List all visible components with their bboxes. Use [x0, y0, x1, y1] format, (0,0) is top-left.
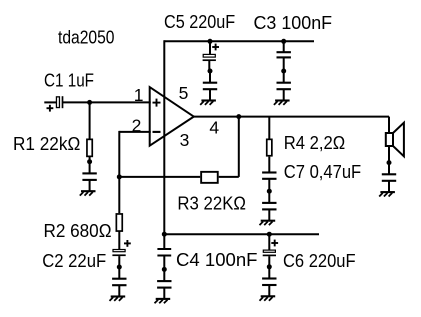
node feedback junction dot — [117, 174, 122, 179]
svg-text:1: 1 — [134, 85, 144, 105]
ground under C7 — [260, 189, 277, 225]
resistor R1 — [87, 139, 92, 156]
ground under C4 — [155, 267, 172, 303]
wire input node down to R1 — [89, 102, 91, 138]
svg-text:4: 4 — [209, 118, 219, 138]
wire op-amp pin 2 — [119, 131, 150, 133]
node C6 rail junction dot — [267, 232, 272, 237]
svg-text:C6 220uF: C6 220uF — [283, 251, 356, 271]
wire supply pin 5 to pin 3 vertical — [163, 40, 165, 234]
op-amp U1 — [150, 87, 194, 146]
svg-text:R4 2,2Ω: R4 2,2Ω — [284, 133, 345, 153]
wire op-amp output — [194, 116, 389, 118]
ground under C3 — [274, 69, 291, 105]
svg-text:R3 22KΩ: R3 22KΩ — [177, 193, 246, 213]
wire output to R4 — [268, 117, 270, 139]
capacitor C7 — [262, 173, 276, 192]
ground under C6 — [260, 264, 277, 300]
ground under R1 — [80, 159, 97, 195]
capacitor C6 — [263, 234, 278, 267]
wire positive supply rail — [164, 40, 314, 42]
wire pin 2 down to feedback node — [118, 131, 120, 177]
capacitor C4 — [157, 234, 171, 269]
node C5 rail junction dot — [208, 39, 213, 44]
resistor R3 — [201, 172, 218, 183]
ground under speaker — [379, 160, 396, 196]
node C3 rail junction dot — [281, 39, 286, 44]
svg-text:3: 3 — [180, 130, 190, 150]
wire R2 to C2 — [118, 231, 120, 249]
svg-text:C1 1uF: C1 1uF — [44, 70, 94, 90]
svg-text:R2 680Ω: R2 680Ω — [44, 221, 112, 241]
node C4 rail junction dot — [162, 232, 167, 237]
wire R3 to output node — [219, 117, 239, 177]
wire C1 to op-amp pin 1 — [63, 101, 151, 103]
speaker LS1 — [386, 123, 404, 157]
svg-text:C7 0,47uF: C7 0,47uF — [284, 162, 361, 182]
svg-text:tda2050: tda2050 — [58, 28, 115, 48]
capacitor C2 — [112, 240, 130, 267]
svg-text:R1 22kΩ: R1 22kΩ — [13, 134, 80, 154]
wire input to C1 — [44, 101, 56, 103]
wire output to speaker — [388, 117, 390, 133]
svg-text:C2 22uF: C2 22uF — [42, 251, 106, 271]
capacitor C3 — [277, 41, 291, 71]
wire speaker to ground — [388, 146, 390, 163]
svg-text:5: 5 — [179, 83, 189, 103]
wire feedback node to R3 — [119, 176, 200, 178]
node output junction dot — [236, 114, 241, 119]
svg-text:C3 100nF: C3 100nF — [254, 13, 333, 33]
ground under C5 — [200, 69, 217, 105]
ground under C2 — [110, 265, 127, 301]
capacitor C5 — [203, 41, 219, 71]
wire R1 to ground — [89, 156, 91, 162]
resistor R2 — [116, 214, 122, 231]
wire negative supply rail — [164, 233, 319, 235]
svg-text:C4 100nF: C4 100nF — [176, 250, 258, 270]
wire feedback node down to R2 — [118, 177, 120, 213]
node input junction dot — [87, 100, 92, 105]
resistor R4 — [267, 139, 272, 155]
capacitor C1 — [47, 96, 63, 111]
svg-text:C5 220uF: C5 220uF — [164, 12, 235, 32]
wire R4 to C7 — [268, 157, 270, 173]
